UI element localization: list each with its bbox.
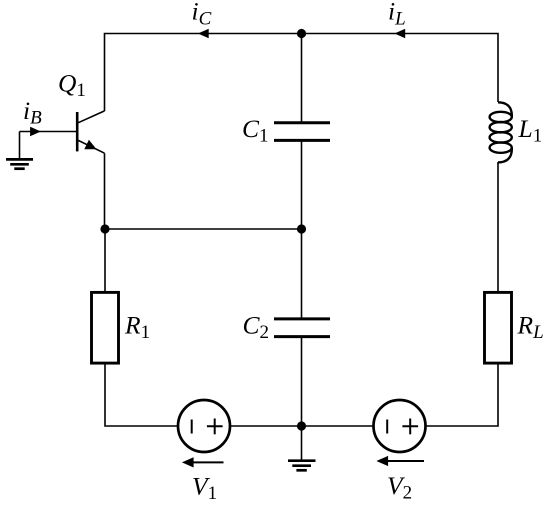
svg-text:RL: RL (517, 311, 544, 344)
wire RL to L1 (497, 162, 499, 292)
wire base (20, 131, 78, 133)
wire node C to C2 (301, 229, 303, 318)
node B (emitter/R1 junction) (101, 225, 109, 233)
source V1 (178, 400, 230, 452)
svg-text:iL: iL (388, 0, 406, 30)
resistor R1 (92, 292, 119, 363)
wire top node to C1 (301, 34, 303, 123)
svg-text:iB: iB (23, 96, 42, 129)
wire V1 to bottom node (230, 425, 302, 427)
node C (C1/C2 junction) (298, 225, 306, 233)
transistor Q1 (77, 111, 104, 153)
node D (bottom center junction) (298, 422, 306, 430)
wire R1 to V1 corner (105, 364, 178, 426)
current arrow V2 (385, 460, 424, 462)
wire emitter to node (104, 153, 106, 229)
wire middle horizontal (105, 228, 302, 230)
svg-text:R1: R1 (124, 311, 150, 344)
svg-text:Q1: Q1 (58, 69, 86, 102)
resistor RL (485, 292, 512, 363)
svg-text:iC: iC (192, 0, 212, 30)
current arrow V1 (190, 461, 224, 463)
svg-text:V1: V1 (192, 472, 217, 505)
node A (top center junction) (298, 30, 306, 38)
svg-text:L1: L1 (518, 114, 543, 147)
svg-text:V2: V2 (387, 471, 412, 504)
source V2 (374, 400, 426, 452)
ground (bottom) (288, 426, 316, 470)
current arrow iB (30, 127, 41, 137)
wire bottom node to V2 (302, 425, 374, 427)
current arrow iL (395, 29, 406, 39)
svg-text:C2: C2 (243, 311, 270, 344)
svg-text:C1: C1 (242, 114, 269, 147)
wire C1 to node C (301, 141, 303, 229)
wire C2 to bottom node (301, 337, 303, 426)
wire top rail (105, 34, 499, 112)
current arrow iC (198, 29, 209, 39)
ground (base) (6, 132, 33, 169)
capacitor C1 (274, 123, 330, 141)
capacitor C2 (274, 319, 330, 337)
wire node B to R1 (104, 229, 106, 291)
inductor L1 (490, 102, 512, 162)
wire V2 to RL corner (426, 364, 499, 426)
